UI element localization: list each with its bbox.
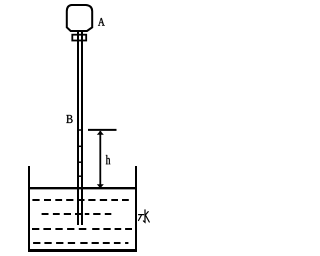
stopper (cork at bulb neck) [72,35,86,41]
label A [98,18,105,26]
water surface line [29,187,136,189]
tube tick 3 [77,161,83,163]
tube tick 2 [77,145,83,147]
water dashed row 2 [42,213,112,215]
tube tick 1 (liquid level mark) [77,129,83,131]
water dashed row 3 [32,228,132,230]
bulb A (octagonal flask) [67,5,92,31]
label 水 (water) drawn as strokes [139,210,150,222]
tube tick 4 [77,175,83,177]
h dimension arrow shaft [99,131,101,188]
tube left wall [77,31,79,225]
tube right wall [81,31,83,225]
h dimension top reference line [88,129,117,131]
label h [106,155,111,164]
h arrowhead up [97,131,104,135]
label B [66,115,72,123]
container bottom (thicker) [28,249,137,252]
h arrowhead down [97,184,104,188]
water dashed row 4 [33,242,128,244]
container (open-top vessel) [29,166,136,251]
water dashed row 1 [32,199,128,201]
